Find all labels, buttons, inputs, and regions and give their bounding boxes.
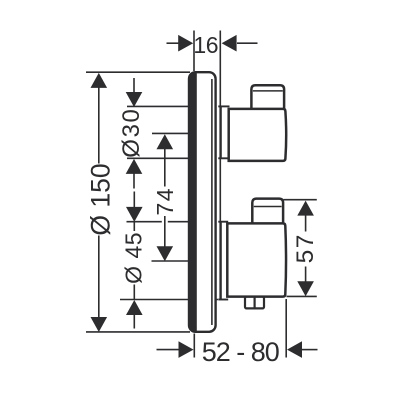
dim 74 dimension line bbox=[164, 149, 166, 187]
dim O30 bottom extension line bbox=[127, 157, 190, 159]
dim O30 dimension line bbox=[133, 78, 135, 93]
upper handle cap bbox=[251, 85, 284, 109]
svg-text:16: 16 bbox=[193, 32, 218, 58]
upper handle cap inner line bbox=[253, 90, 283, 92]
dim O45 bottom extension line bbox=[120, 299, 218, 301]
dim O30 bottom arrowhead bbox=[126, 159, 143, 174]
dim 57 dimension line bbox=[305, 215, 307, 231]
upper handle neck bottom stub bbox=[218, 157, 229, 159]
dim 16 right / handle-base extension line bbox=[219, 31, 221, 300]
dim 52-80 right arrowhead bbox=[287, 341, 302, 358]
upper handle neck left edge bbox=[219, 106, 221, 158]
dim O150 bottom arrowhead bbox=[91, 317, 108, 332]
dim 57 bottom extension line bbox=[287, 295, 317, 297]
dim 16 left extension line bbox=[193, 31, 195, 72]
upper handle body bbox=[229, 109, 287, 161]
svg-text:52 - 80: 52 - 80 bbox=[202, 337, 279, 367]
plate front face line bbox=[211, 79, 213, 325]
dim O45 dimension line bbox=[133, 192, 135, 208]
svg-text:74: 74 bbox=[152, 187, 178, 216]
plate wall-side dark bar bbox=[189, 73, 197, 332]
dim 16 dimension line bbox=[167, 42, 179, 44]
lower handle neck top stub bbox=[218, 221, 228, 223]
upper handle neck top stub bbox=[218, 105, 229, 107]
lower handle cap inner line bbox=[254, 206, 282, 208]
dim O30 top extension line bbox=[127, 105, 190, 107]
lower handle tab divider bbox=[254, 297, 256, 309]
dim 74 bottom extension line bbox=[152, 260, 190, 262]
plate bottom extension line bbox=[86, 331, 190, 333]
dim 74 bottom arrowhead bbox=[157, 246, 174, 261]
dim O30 top arrowhead bbox=[126, 92, 143, 107]
lower handle cap bbox=[252, 199, 283, 224]
lower handle body bbox=[227, 223, 286, 296]
svg-text:57: 57 bbox=[292, 233, 319, 263]
dim 57 bottom arrowhead bbox=[297, 281, 314, 296]
dim O45 bottom arrowhead bbox=[126, 300, 143, 315]
dim 74 top extension line bbox=[152, 132, 214, 134]
svg-text:Ø 150: Ø 150 bbox=[86, 163, 116, 235]
dim 52-80 right extension line bbox=[285, 299, 287, 358]
dim 52-80 left arrowhead bbox=[179, 341, 194, 358]
dim 52-80 left extension line bbox=[193, 334, 195, 358]
lower handle neck left edge bbox=[219, 222, 221, 300]
dim 16 left arrowhead bbox=[178, 35, 193, 52]
dim 57 top extension line bbox=[284, 199, 317, 201]
plate top extension line bbox=[86, 71, 190, 73]
dim O45 top arrowhead bbox=[126, 207, 143, 222]
lower handle bottom tab bbox=[245, 297, 264, 309]
svg-text:Ø30: Ø30 bbox=[118, 108, 145, 158]
dim 57 top arrowhead bbox=[297, 201, 314, 216]
dim 74 top arrowhead bbox=[157, 134, 174, 149]
dim O150 dimension line bbox=[98, 87, 100, 164]
lower handle neck bottom stub bbox=[218, 299, 228, 301]
dim O150 top arrowhead bbox=[91, 73, 108, 88]
dim 52-80 dimension line bbox=[157, 349, 179, 351]
dim 16 right arrowhead bbox=[222, 35, 237, 52]
svg-text:Ø 45: Ø 45 bbox=[121, 232, 147, 284]
dim O45 top extension line bbox=[127, 221, 162, 223]
escutcheon plate outline (side view) bbox=[189, 72, 216, 332]
